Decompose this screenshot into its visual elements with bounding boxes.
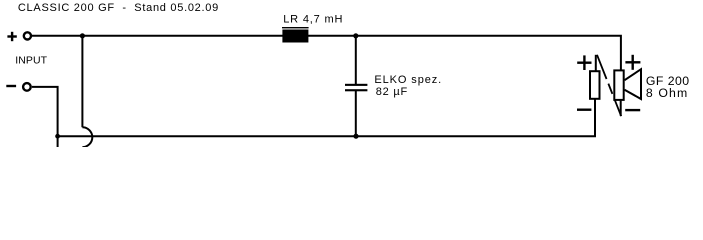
speaker plus mark (coil2) [625, 55, 640, 70]
node B junction dot (cap top) [353, 33, 358, 38]
node D junction dot (bottom left) [55, 134, 60, 139]
svg-text:CLASSIC 200 GF - Stand 05.02: CLASSIC 200 GF - Stand 05.02.09 [18, 2, 219, 14]
wire: bottom rail to speaker [58, 100, 595, 137]
speaker voice coil 1 (left rect) [590, 71, 600, 99]
wire: capacitor down to node C [355, 91, 357, 136]
node C junction dot (bottom rail) [353, 134, 358, 139]
node A junction dot on top rail [80, 33, 85, 38]
dashed series link between coils [597, 55, 621, 116]
wire: node B down to capacitor [355, 36, 357, 84]
capacitor C top plate [345, 84, 367, 86]
svg-text:INPUT: INPUT [15, 55, 47, 67]
speaker voice coil 2 (right rect) [614, 70, 623, 100]
speaker plus mark (coil1) [577, 55, 591, 70]
terminal circle (input +) [24, 32, 31, 39]
svg-text:ELKO spez.: ELKO spez. [374, 74, 442, 86]
terminal circle (input -) [23, 83, 31, 91]
svg-text:82 µF: 82 µF [376, 86, 408, 98]
wire hop over bottom rail (no connection) [82, 127, 92, 147]
stub: coil1 top terminal [595, 55, 597, 71]
wire: top rail from + terminal to speaker corner [31, 36, 621, 70]
wire: node A down to hop [81, 36, 83, 128]
stub: coil2 bottom terminal [620, 101, 622, 116]
svg-text:LR 4,7 mH: LR 4,7 mH [283, 14, 343, 26]
terminal plus mark (input +) [7, 32, 16, 41]
wire: input - to corner and down [32, 87, 58, 147]
capacitor C bottom plate [345, 89, 367, 91]
inductor LR core line [282, 27, 309, 28]
inductor LR body [282, 30, 308, 43]
speaker minus mark (coil2) [625, 109, 640, 111]
svg-text:8 Ohm: 8 Ohm [646, 86, 688, 100]
speaker cone [625, 69, 642, 99]
terminal minus mark (input -) [6, 85, 16, 87]
speaker minus mark (coil1) [577, 108, 591, 110]
